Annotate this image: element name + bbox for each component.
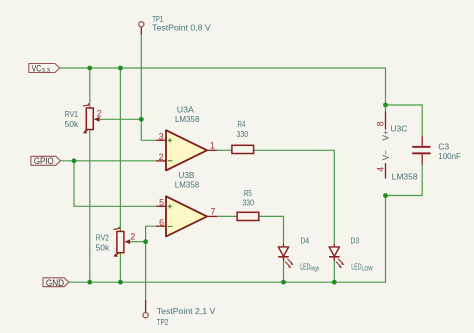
svg-text:7: 7	[211, 206, 216, 216]
wire RV2 bottom to GND	[119, 253, 121, 283]
junction GND/D4	[281, 280, 286, 285]
svg-text:6: 6	[159, 217, 164, 227]
svg-text:RV1: RV1	[65, 109, 78, 119]
wire TP1 drop	[141, 35, 156, 140]
LED D3	[329, 236, 373, 273]
svg-text:LM358: LM358	[392, 172, 418, 182]
wire U3A out to R4	[217, 149, 232, 151]
svg-text:330: 330	[242, 198, 254, 208]
svg-text:50k: 50k	[65, 119, 79, 129]
wire RV1 top feed	[89, 68, 91, 108]
wire RV2 top feed	[119, 68, 121, 231]
junction GND/D3	[332, 280, 337, 285]
wire GPIO rail	[60, 160, 156, 162]
op-amp U3B	[156, 170, 217, 236]
global label VC3,3	[29, 63, 60, 74]
svg-text:RV2: RV2	[96, 233, 109, 243]
pin 8 V+	[385, 105, 387, 112]
wire R4 to D3	[254, 150, 335, 244]
potentiometer RV1	[65, 103, 102, 133]
capacitor C3	[412, 136, 461, 165]
svg-text:4: 4	[376, 167, 386, 172]
svg-text:LM358: LM358	[175, 180, 200, 190]
wire U3B out to R5	[217, 215, 237, 217]
svg-text:5: 5	[159, 197, 164, 207]
op-amp power unit U3C	[376, 105, 418, 182]
svg-text:U3C: U3C	[390, 123, 407, 133]
resistor R4	[232, 119, 254, 154]
op-amp U3A	[156, 104, 217, 170]
potentiometer RV2	[96, 227, 136, 257]
svg-text:LED: LED	[351, 263, 361, 272]
svg-text:2: 2	[97, 108, 102, 118]
junction VC33/RV1	[87, 66, 92, 71]
svg-text:2: 2	[130, 232, 135, 242]
svg-text:V+: V+	[382, 130, 391, 140]
svg-text:U3A: U3A	[177, 104, 194, 114]
svg-text:3,3: 3,3	[42, 68, 51, 75]
junction GND/RV1	[87, 280, 92, 285]
svg-text:TP2: TP2	[157, 317, 169, 327]
svg-text:TestPoint 0,8 V: TestPoint 0,8 V	[152, 23, 211, 33]
junction VC33/RV2	[118, 66, 123, 71]
wire U3B pin6 to TP2 column	[146, 226, 156, 300]
wire RV1 bottom to GND	[89, 130, 91, 283]
LED D4	[278, 236, 319, 273]
svg-text:GND: GND	[46, 278, 64, 288]
svg-text:LM358: LM358	[175, 114, 200, 124]
svg-text:100nF: 100nF	[438, 151, 461, 161]
junction V+ / C3	[383, 103, 388, 108]
wire GND rail	[69, 196, 386, 283]
svg-text:VC: VC	[32, 63, 42, 73]
resistor R5	[237, 188, 259, 221]
svg-text:V−: V−	[382, 150, 391, 160]
svg-text:50k: 50k	[96, 243, 110, 253]
svg-text:2: 2	[159, 152, 164, 162]
svg-text:LOW: LOW	[362, 266, 374, 273]
testpoint TP1	[139, 14, 211, 35]
svg-text:D4: D4	[301, 236, 310, 246]
junction RV1 wiper/TP1	[139, 117, 144, 122]
svg-text:LED: LED	[300, 263, 310, 272]
wire C3 top branch	[386, 105, 423, 136]
global label GPIO	[31, 156, 60, 166]
testpoint TP2	[143, 300, 216, 327]
junction GPIO tee	[72, 158, 77, 163]
svg-text:330: 330	[237, 129, 249, 139]
svg-text:TestPoint 2,1 V: TestPoint 2,1 V	[157, 306, 216, 316]
svg-text:U3B: U3B	[178, 170, 194, 180]
wire VC3,3 rail	[60, 68, 386, 105]
svg-text:3: 3	[159, 131, 164, 141]
junction RV2 wiper/TP2	[143, 239, 148, 244]
wire D4 to GND	[283, 261, 285, 282]
svg-text:D3: D3	[351, 236, 360, 246]
svg-text:8: 8	[376, 121, 386, 126]
global label GND	[43, 278, 69, 288]
wire RV2 wiper to TP2 column	[130, 241, 145, 243]
svg-text:R5: R5	[244, 188, 252, 198]
wire C3 bottom branch	[386, 165, 423, 196]
svg-text:GPIO: GPIO	[34, 156, 54, 166]
junction V- / C3	[383, 193, 388, 198]
wire D3 to GND	[333, 261, 335, 282]
wire R5 to D4	[259, 216, 284, 243]
wire RV1 wiper to TP1 column	[100, 118, 142, 120]
pin 4 V-	[385, 163, 387, 179]
junction GND/RV2	[118, 280, 123, 285]
svg-text:High: High	[311, 266, 320, 273]
wire GPIO to U3B pin5	[74, 161, 156, 207]
svg-text:R4: R4	[238, 119, 246, 129]
svg-text:1: 1	[210, 140, 215, 150]
